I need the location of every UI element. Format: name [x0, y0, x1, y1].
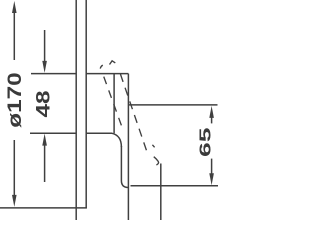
wall line — [75, 0, 77, 220]
extension line top of 48 dimension — [31, 73, 76, 75]
svg-text:48: 48 — [34, 91, 55, 118]
valve hub front edge — [113, 74, 115, 134]
65 dimension lower shaft with down arrow — [211, 159, 213, 177]
ø170 dimension line upper segment with up arrow — [13, 8, 15, 60]
lever handle right edge, extended down as extension line — [127, 74, 129, 220]
dimension 48 — [42, 30, 47, 182]
rotated handle right edge dashes — [120, 74, 147, 152]
svg-text:65: 65 — [198, 127, 215, 157]
dimension ø170 — [12, 1, 17, 207]
svg-text:ø170: ø170 — [5, 72, 26, 128]
top cap right corner dash — [110, 61, 116, 65]
48 dimension lower shaft with up arrow — [44, 143, 46, 182]
escutcheon plate front edge — [85, 0, 87, 208]
lever handle bottom tip curve — [121, 181, 128, 188]
rotated handle tip curve dash — [147, 152, 158, 165]
extension line from rotated handle tip — [160, 164, 162, 221]
valve hub bottom edge with fillet to handle — [86, 133, 121, 147]
extension line at valve axis for 65 dimension — [128, 104, 217, 106]
ø170 dimension line lower segment with down arrow — [13, 140, 15, 200]
top cap left corner dash — [100, 65, 103, 69]
48 dimension upper shaft with down arrow — [44, 30, 46, 64]
dashed rotated lever handle outline — [100, 61, 158, 165]
valve hub top edge — [86, 73, 128, 75]
65 dimension upper shaft with up arrow — [211, 114, 213, 123]
small dash fragment above tip — [152, 145, 154, 148]
extension line bottom of 48 dimension — [30, 132, 76, 134]
rotated handle left edge dashes — [102, 71, 122, 127]
dimension 65 — [209, 106, 214, 185]
escutcheon plate bottom / ø170 extension line — [0, 207, 87, 209]
extension line at handle tip for 65 dimension — [131, 185, 219, 187]
lever handle left edge — [120, 146, 122, 181]
